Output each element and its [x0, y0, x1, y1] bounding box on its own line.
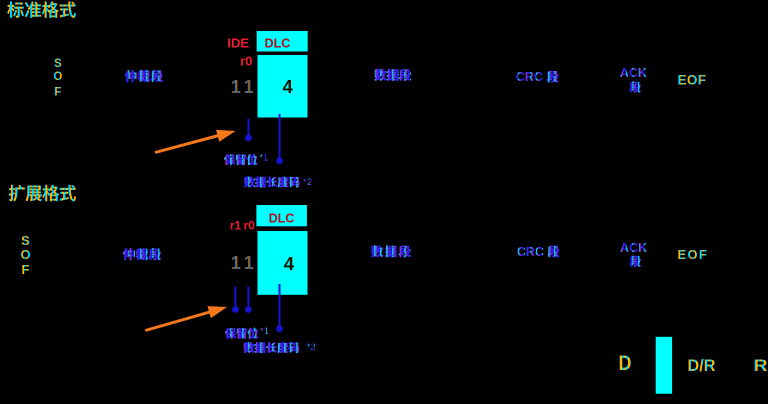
bit value 1 (r0) standard [244, 77, 254, 97]
svg-text:1: 1 [244, 77, 254, 97]
DLC header box standard [257, 31, 308, 52]
svg-text:*2: *2 [307, 342, 316, 353]
svg-text:D/R: D/R [688, 356, 716, 375]
svg-text:r1: r1 [230, 219, 242, 233]
svg-text:F: F [54, 87, 61, 99]
orange arrow standard [155, 130, 236, 154]
CRC field label extended [517, 245, 560, 259]
DLC header box extended [256, 205, 307, 226]
svg-text:D: D [619, 351, 632, 375]
callout wire DLC extended [276, 284, 283, 332]
DLC bit count 4 standard [282, 76, 293, 97]
legend cyan level bar [656, 337, 672, 394]
svg-text:ACK: ACK [620, 241, 647, 255]
callout wire DLC standard [276, 114, 283, 164]
svg-text:O: O [20, 247, 30, 262]
reserved bit label (bao liu wei) extended [225, 326, 269, 339]
bit value 1 (IDE) standard [231, 77, 241, 97]
svg-text:R: R [754, 356, 768, 375]
DLC value box extended [258, 231, 308, 295]
EOF label standard [678, 73, 707, 88]
callout wire r1 extended [232, 286, 239, 313]
svg-text:ACK: ACK [620, 66, 647, 80]
svg-text:*1: *1 [260, 326, 269, 336]
arbitration field label (zhong cai duan) extended [123, 248, 161, 260]
svg-text:*1: *1 [260, 153, 269, 163]
DLC header text extended [269, 211, 295, 225]
ACK field label extended [620, 241, 647, 267]
callout wire r0 standard [245, 119, 252, 142]
reserved bit label (bao liu wei) standard [224, 153, 268, 165]
svg-text:1: 1 [231, 77, 241, 97]
svg-text:1: 1 [244, 253, 254, 273]
svg-text:r0: r0 [244, 219, 256, 233]
SOF label (vertical) standard [53, 58, 62, 99]
DLC header text standard [265, 36, 291, 50]
data length code label extended [244, 342, 316, 353]
svg-text:r0: r0 [240, 54, 252, 69]
svg-text:*2: *2 [303, 177, 312, 188]
IDE bit label [227, 36, 249, 51]
svg-text:DLC: DLC [269, 211, 295, 225]
svg-text:4: 4 [284, 253, 295, 274]
r0 bit label standard [240, 54, 252, 69]
svg-text:1: 1 [231, 253, 241, 273]
legend D/R [688, 356, 716, 375]
svg-text:EOF: EOF [678, 73, 707, 88]
callout wire r0 extended [245, 286, 252, 313]
ACK field label standard [620, 66, 647, 92]
CRC field label standard [516, 70, 559, 84]
data field label (shu ju duan) standard [375, 69, 411, 81]
data length code label (shu ju chang du ma) standard [244, 177, 312, 188]
svg-text:S: S [21, 233, 30, 248]
svg-text:S: S [54, 58, 62, 70]
legend letter R (recessive) [754, 356, 768, 375]
svg-text:IDE: IDE [227, 36, 249, 51]
DLC bit count 4 extended [284, 253, 295, 274]
SOF label (vertical) extended [20, 233, 30, 277]
bit value 1 (r0) extended [244, 253, 254, 273]
legend letter D (dominant) [619, 351, 632, 375]
svg-text:4: 4 [282, 76, 293, 97]
data field label (shu ju duan) extended [371, 245, 410, 257]
title: extended format (kuo zhan ge shi) [9, 185, 76, 201]
bit value 1 (r1) extended [231, 253, 241, 273]
svg-text:O: O [53, 71, 62, 83]
orange arrow extended [145, 306, 227, 332]
svg-text:CRC: CRC [516, 70, 543, 84]
r1 r0 bit labels extended [230, 219, 255, 233]
svg-text:DLC: DLC [265, 36, 291, 50]
svg-text:EOF: EOF [678, 247, 709, 262]
svg-text:F: F [22, 262, 30, 277]
title: standard format (biao zhun ge shi) [7, 2, 75, 18]
svg-text:CRC: CRC [517, 245, 544, 259]
DLC value box standard [258, 55, 308, 118]
arbitration field label (zhong cai duan) standard [125, 70, 163, 82]
EOF label extended [678, 247, 709, 262]
